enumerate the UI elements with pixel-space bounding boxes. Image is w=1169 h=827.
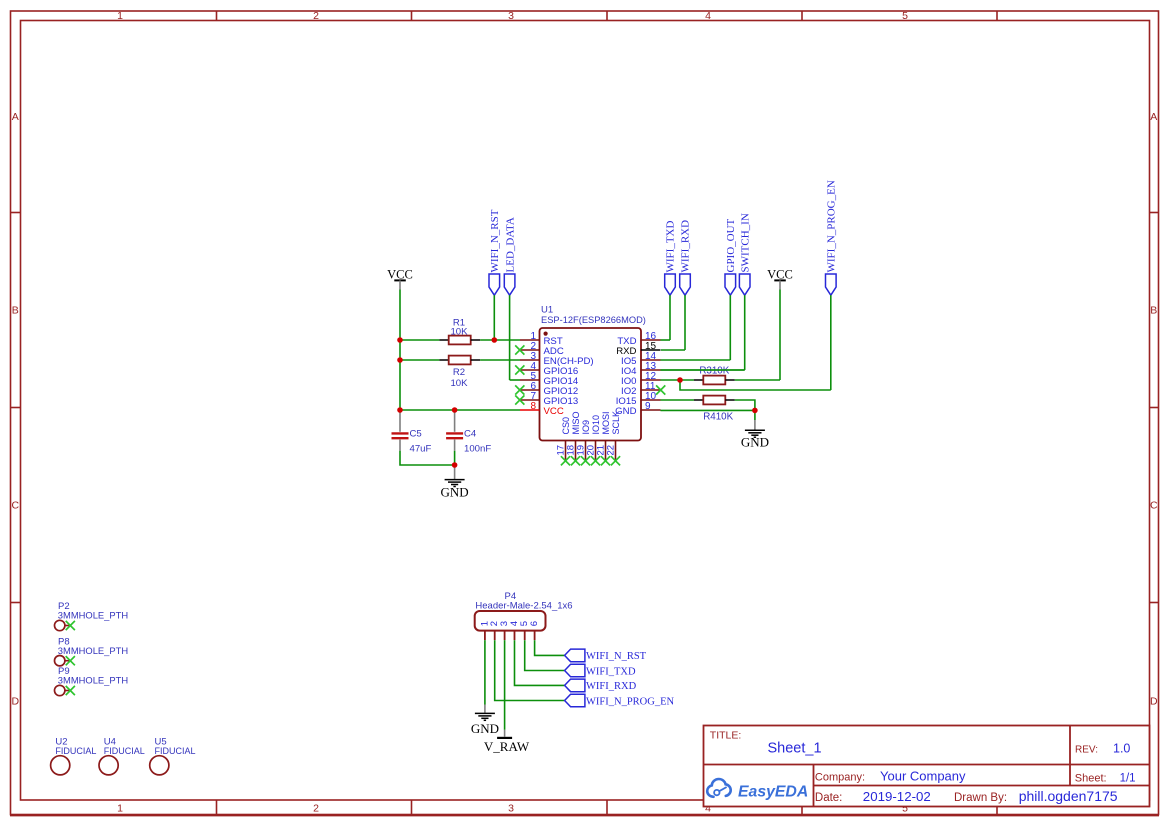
net flag WIFI_N_RST xyxy=(565,649,647,662)
wire C4 bottom xyxy=(454,451,456,465)
wire P4 pin5 to WIFI_TXD xyxy=(525,640,565,670)
svg-text:2: 2 xyxy=(313,10,319,22)
svg-text:1/1: 1/1 xyxy=(1120,773,1136,785)
junction xyxy=(397,407,403,413)
power flag VCC (right) xyxy=(767,268,793,290)
svg-text:22: 22 xyxy=(605,445,616,456)
junction xyxy=(397,337,403,343)
svg-text:C: C xyxy=(12,500,20,512)
svg-text:Drawn By:: Drawn By: xyxy=(954,792,1007,804)
svg-text:R2: R2 xyxy=(453,367,465,378)
svg-text:CS0: CS0 xyxy=(561,417,571,435)
svg-text:VCC: VCC xyxy=(544,406,564,417)
svg-text:GPIO_OUT: GPIO_OUT xyxy=(725,218,737,272)
svg-text:GND: GND xyxy=(741,435,769,450)
svg-text:A: A xyxy=(1150,111,1157,123)
svg-text:WIFI_TXD: WIFI_TXD xyxy=(665,221,677,273)
net flag LED_DATA xyxy=(504,217,516,295)
capacitor C4 100nF xyxy=(446,410,491,455)
wire from flag WIFI_RXD xyxy=(684,295,686,350)
wire R1 to U1 pin1 xyxy=(480,339,520,341)
wire U1 IO5 to flag xyxy=(661,359,731,361)
svg-text:WIFI_N_PROG_EN: WIFI_N_PROG_EN xyxy=(586,696,674,707)
U1 pin 20 IO10 xyxy=(585,415,601,465)
net flag WIFI_TXD xyxy=(665,221,677,296)
U1 pin 5 GPIO14 xyxy=(520,371,579,387)
svg-text:D: D xyxy=(12,696,20,708)
U1 pin 21 MOSI xyxy=(595,411,611,465)
P4 pin 5 xyxy=(519,621,530,640)
mounting hole P9 3MMHOLE_PTH xyxy=(55,666,129,696)
EasyEDA logo xyxy=(707,779,808,800)
svg-text:1.0: 1.0 xyxy=(1113,742,1130,756)
net flag WIFI_RXD xyxy=(680,220,692,295)
U1 pin 4 GPIO16 xyxy=(515,361,578,377)
svg-text:Sheet:: Sheet: xyxy=(1075,773,1107,785)
svg-text:FIDUCIAL: FIDUCIAL xyxy=(55,746,96,756)
U1 pin 22 SCLK xyxy=(605,411,621,465)
wire R3 to VCC xyxy=(735,379,780,381)
P4 pin 2 xyxy=(489,621,500,640)
svg-text:6: 6 xyxy=(529,621,540,626)
svg-text:B: B xyxy=(1150,305,1157,317)
junction xyxy=(452,407,458,413)
svg-text:GND: GND xyxy=(471,721,499,736)
wire U1 IO4 to flag xyxy=(661,369,745,371)
U1 pin 18 MISO xyxy=(565,411,581,465)
wire P4 pin3 to V_RAW xyxy=(504,640,506,730)
svg-text:WIFI_RXD: WIFI_RXD xyxy=(680,220,692,273)
net flag WIFI_TXD xyxy=(565,664,636,677)
svg-text:1: 1 xyxy=(117,803,123,815)
power flag V_RAW xyxy=(484,730,530,754)
svg-text:R410K: R410K xyxy=(703,412,733,423)
P4 pin 1 xyxy=(479,621,490,640)
wire P4 pin1 to GND xyxy=(484,640,486,704)
svg-text:IO10: IO10 xyxy=(591,415,601,435)
svg-text:Company:: Company: xyxy=(815,772,865,784)
wire R2 to U1 pin3 xyxy=(480,359,520,361)
svg-text:C5: C5 xyxy=(410,429,422,440)
wire U1 RXD to flag xyxy=(661,349,685,351)
svg-text:Sheet_1: Sheet_1 xyxy=(768,741,822,757)
svg-text:3MMHOLE_PTH: 3MMHOLE_PTH xyxy=(58,645,128,656)
wire U1 pin9 GND to node xyxy=(661,409,755,411)
U1 pin 14 IO5 xyxy=(621,351,660,367)
wire IO0 net to flag WIFI_N_PROG_EN xyxy=(680,380,831,390)
svg-text:9: 9 xyxy=(645,401,651,412)
junction xyxy=(397,357,403,363)
svg-text:C4: C4 xyxy=(464,429,477,440)
wire VCC rail vertical xyxy=(399,290,401,411)
U1 pin 13 IO4 xyxy=(621,361,660,377)
U1 pin 9 GND xyxy=(615,401,660,417)
svg-text:LED_DATA: LED_DATA xyxy=(504,217,516,272)
svg-text:1: 1 xyxy=(117,10,123,22)
svg-text:47uF: 47uF xyxy=(410,444,432,455)
svg-text:REV:: REV: xyxy=(1075,744,1098,755)
mounting hole P2 3MMHOLE_PTH xyxy=(55,601,129,631)
resistor R1 10K xyxy=(439,318,480,345)
wire from flag WIFI_N_PROG_EN xyxy=(830,295,832,390)
svg-text:MOSI: MOSI xyxy=(601,411,611,434)
resistor R4 xyxy=(694,396,735,405)
svg-text:WIFI_TXD: WIFI_TXD xyxy=(586,666,636,677)
ground GND (below C4) xyxy=(441,465,469,500)
wire from flag WIFI_N_RST xyxy=(493,295,495,340)
wire VCC row to U1 pin8 xyxy=(400,409,520,411)
fiducial U5 xyxy=(150,737,196,775)
svg-text:5: 5 xyxy=(902,10,908,22)
ground GND (right) xyxy=(741,410,769,449)
svg-text:WIFI_RXD: WIFI_RXD xyxy=(586,681,637,692)
svg-text:IO9: IO9 xyxy=(581,420,591,435)
svg-text:phill.ogden7175: phill.ogden7175 xyxy=(1019,788,1118,804)
U1 pin 16 TXD xyxy=(617,331,660,347)
connector P4 Header-Male-2.54_1x6 xyxy=(475,591,573,631)
svg-text:D: D xyxy=(1150,696,1158,708)
svg-text:MISO: MISO xyxy=(571,411,581,434)
wire P4 pin4 to WIFI_RXD xyxy=(515,640,565,685)
title block xyxy=(704,726,1150,807)
fiducial U2 xyxy=(51,737,97,775)
fiducial U4 xyxy=(99,737,145,775)
svg-text:4: 4 xyxy=(705,10,711,22)
svg-text:10K: 10K xyxy=(450,378,468,389)
svg-text:WIFI_N_PROG_EN: WIFI_N_PROG_EN xyxy=(826,180,838,272)
svg-text:GND: GND xyxy=(441,485,469,500)
junction xyxy=(492,337,498,343)
net flag WIFI_N_PROG_EN xyxy=(826,180,838,295)
wire U1 TXD to flag xyxy=(661,339,671,341)
resistor R2 10K xyxy=(439,356,480,389)
U1 pin 12 IO0 xyxy=(621,371,660,387)
frame column numbers xyxy=(117,10,908,815)
svg-text:Date:: Date: xyxy=(815,792,843,804)
U1 pin 8 VCC xyxy=(520,401,564,417)
U1 pin 3 EN(CH-PD) xyxy=(520,351,594,367)
svg-text:2019-12-02: 2019-12-02 xyxy=(863,789,931,804)
svg-text:10K: 10K xyxy=(450,327,468,338)
wire R4 right to GND node xyxy=(735,400,755,410)
wire P4 pin6 to WIFI_N_RST xyxy=(535,640,565,655)
junction xyxy=(452,462,458,468)
wire VCC to R1 xyxy=(400,339,439,341)
svg-text:ESP-12F(ESP8266MOD): ESP-12F(ESP8266MOD) xyxy=(541,315,646,325)
U1 pin 6 GPIO12 xyxy=(515,381,578,397)
svg-text:SWITCH_IN: SWITCH_IN xyxy=(739,213,751,272)
svg-text:C: C xyxy=(1150,500,1158,512)
svg-text:EasyEDA: EasyEDA xyxy=(738,783,808,800)
svg-text:8: 8 xyxy=(530,401,536,412)
wire C5 bottom xyxy=(400,451,455,465)
P4 pin 4 xyxy=(509,621,520,640)
wire LED_DATA to U1 pin5 xyxy=(510,379,520,381)
wire from flag GPIO_OUT xyxy=(729,295,731,360)
ground GND (P4) xyxy=(471,705,499,737)
svg-text:100nF: 100nF xyxy=(464,444,491,455)
U1 pin 15 RXD xyxy=(616,341,660,357)
U1 pin 19 IO9 xyxy=(575,420,591,465)
power flag VCC (left) xyxy=(387,268,413,290)
resistor R3 xyxy=(694,376,735,385)
wire P4 pin2 to WIFI_N_PROG_EN xyxy=(495,640,565,700)
wire U1 IO15 to R4 xyxy=(661,399,695,401)
svg-text:A: A xyxy=(12,111,19,123)
frame row letters xyxy=(12,111,1159,708)
net flag WIFI_N_PROG_EN xyxy=(565,694,675,707)
svg-text:B: B xyxy=(12,305,19,317)
svg-text:3MMHOLE_PTH: 3MMHOLE_PTH xyxy=(58,610,128,621)
svg-text:WIFI_N_RST: WIFI_N_RST xyxy=(489,209,501,272)
wire VCC right rail xyxy=(779,290,781,381)
svg-text:3: 3 xyxy=(508,803,514,815)
svg-text:3MMHOLE_PTH: 3MMHOLE_PTH xyxy=(58,675,128,686)
svg-text:TITLE:: TITLE: xyxy=(710,730,742,742)
wire from flag LED_DATA xyxy=(509,295,511,380)
wire U1 IO4 over label xyxy=(661,369,745,371)
net flag WIFI_RXD xyxy=(565,679,637,692)
op IC U1 ESP-12F(ESP8266MOD) xyxy=(540,305,646,441)
svg-text:FIDUCIAL: FIDUCIAL xyxy=(104,746,145,756)
net flag WIFI_N_RST xyxy=(489,209,501,295)
net flag GPIO_OUT xyxy=(725,218,737,295)
wire from flag SWITCH_IN xyxy=(744,295,746,370)
svg-text:Your Company: Your Company xyxy=(880,769,966,784)
wire from flag WIFI_TXD xyxy=(669,295,671,340)
wire VCC to R2 xyxy=(400,359,439,361)
P4 pin 6 xyxy=(529,621,540,640)
capacitor C5 47uF xyxy=(392,410,432,455)
svg-text:3: 3 xyxy=(508,10,514,22)
wire U1 IO0 to R3 xyxy=(661,379,695,381)
svg-text:WIFI_N_RST: WIFI_N_RST xyxy=(586,651,647,662)
U1 pin 11 IO2 xyxy=(621,381,665,397)
svg-text:SCLK: SCLK xyxy=(611,411,621,435)
U1 pin 17 CS0 xyxy=(555,417,571,465)
svg-text:2: 2 xyxy=(313,803,319,815)
P4 pin 3 xyxy=(499,621,510,640)
junction xyxy=(677,377,683,383)
junction xyxy=(752,408,758,414)
U1 pin 1 RST xyxy=(520,331,563,347)
U1 pin 2 ADC xyxy=(515,341,564,357)
svg-text:V_RAW: V_RAW xyxy=(484,739,530,754)
mounting hole P8 3MMHOLE_PTH xyxy=(55,636,129,666)
U1 pin 7 GPIO13 xyxy=(515,391,578,407)
net flag SWITCH_IN xyxy=(739,213,751,295)
svg-text:FIDUCIAL: FIDUCIAL xyxy=(155,746,196,756)
U1 pin 10 IO15 xyxy=(616,391,661,407)
